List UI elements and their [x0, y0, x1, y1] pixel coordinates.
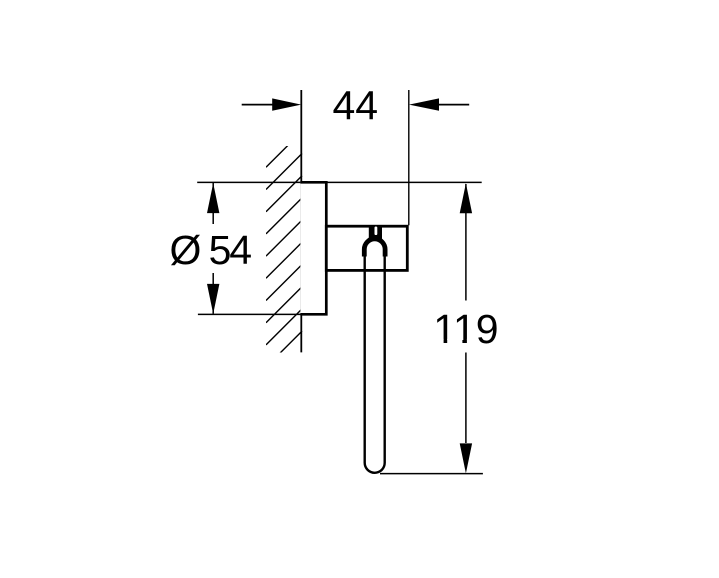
svg-text:119: 119: [433, 306, 498, 352]
svg-text:Ø 54: Ø 54: [170, 227, 252, 273]
svg-text:44: 44: [332, 82, 378, 128]
